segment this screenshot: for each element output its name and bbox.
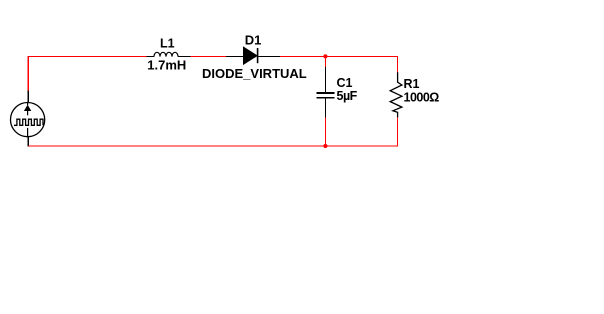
svg-text:D1: D1 bbox=[245, 33, 262, 48]
inductor L1 bbox=[154, 52, 178, 56]
label L1 reference designator bbox=[160, 37, 175, 51]
svg-text:C1: C1 bbox=[337, 76, 353, 90]
svg-text:1000Ω: 1000Ω bbox=[404, 90, 440, 104]
resistor R1 bbox=[390, 72, 402, 117]
capacitor C1 bbox=[317, 92, 335, 99]
wire inductor L1 left lead bbox=[147, 56, 155, 58]
wire left branch vertical (red) bbox=[27, 57, 29, 91]
wire right branch top (red) bbox=[397, 57, 399, 73]
node junction top (capacitor tap) bbox=[323, 54, 327, 58]
wire capacitor C1 bottom lead (black) bbox=[324, 99, 326, 118]
wire capacitor C1 bottom lead (red) bbox=[324, 118, 326, 147]
label D1 model DIODE_VIRTUAL bbox=[202, 66, 307, 81]
source V1 square-wave voltage source bbox=[11, 103, 45, 137]
label C1 reference designator bbox=[337, 76, 353, 90]
label C1 value 5uF bbox=[337, 89, 358, 103]
label R1 reference designator bbox=[404, 77, 420, 91]
wire diode D1 cathode lead bbox=[258, 56, 280, 58]
wire bottom rail (red) bbox=[29, 145, 398, 147]
wire capacitor C1 top lead (black) bbox=[324, 67, 326, 92]
wire right branch bottom (red) bbox=[397, 117, 399, 146]
wire source bottom lead (black) bbox=[27, 137, 29, 147]
label R1 value 1000 ohm bbox=[404, 90, 440, 104]
wire top rail right segment bbox=[280, 56, 398, 58]
svg-text:1.7mH: 1.7mH bbox=[147, 58, 186, 73]
wire inductor L1 right lead bbox=[178, 56, 191, 58]
wire diode D1 anode lead bbox=[226, 56, 244, 58]
diode D1 bbox=[243, 47, 257, 64]
svg-text:L1: L1 bbox=[160, 37, 175, 51]
node junction bottom (capacitor tap) bbox=[323, 144, 327, 148]
label L1 value 1.7mH bbox=[147, 58, 186, 73]
svg-text:R1: R1 bbox=[404, 77, 420, 91]
wire top rail middle segment bbox=[191, 56, 227, 58]
svg-text:DIODE_VIRTUAL: DIODE_VIRTUAL bbox=[202, 66, 307, 81]
wire capacitor C1 top lead (red) bbox=[324, 57, 326, 67]
svg-text:5µF: 5µF bbox=[337, 89, 358, 103]
wire top rail left segment bbox=[28, 56, 147, 58]
label D1 reference designator bbox=[245, 33, 262, 48]
wire source top lead (black) bbox=[27, 90, 29, 103]
